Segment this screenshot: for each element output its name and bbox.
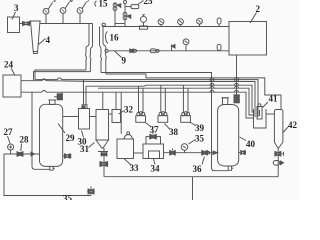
svg-text:29: 29 xyxy=(66,133,76,143)
column 31 (cyclone) xyxy=(96,110,109,149)
capsule fitting row2 xyxy=(150,49,159,53)
label 35 xyxy=(195,134,205,144)
svg-text:16: 16 xyxy=(110,33,120,43)
junction curl at start of row1 pipe xyxy=(102,23,105,26)
svg-text:24: 24 xyxy=(4,60,14,70)
wire left drop pipe x4 and bottom run y195.5 xyxy=(4,154,91,196)
wire vertical x115 to row1 pipe xyxy=(114,12,116,27)
leader for label 35 xyxy=(189,140,196,145)
capsule fitting on row2 xyxy=(217,44,221,51)
label 31 xyxy=(80,144,90,154)
leader for label 24 xyxy=(11,68,15,76)
wire vertical x125 xyxy=(124,4,126,27)
box 3 (feed tank) xyxy=(8,17,20,33)
wire top pipe y23.5 xyxy=(40,23,93,25)
label 16 xyxy=(110,33,120,43)
valve between 34 and 35 xyxy=(170,148,176,155)
leader brace for 16 xyxy=(105,32,108,44)
vessel40 bottom drain xyxy=(228,166,233,170)
leader for label 36 xyxy=(202,157,205,165)
label 33 xyxy=(130,163,140,173)
vessel29 bottom drain xyxy=(50,166,55,170)
wire column31 to box32 xyxy=(109,113,113,115)
T-valve on riser xyxy=(98,149,108,157)
leader for label 4 xyxy=(39,39,46,45)
wire loop under vessel40 xyxy=(212,151,229,171)
wire x125 to capsule 25 xyxy=(125,6,131,8)
top manifold line TL to vessel40 side entry xyxy=(101,73,212,151)
svg-text:6: 6 xyxy=(70,0,74,4)
wire stub x91 with valve xyxy=(88,187,94,196)
leader for label 38 xyxy=(165,124,170,130)
box 24 (control cabinet) xyxy=(3,75,21,97)
wire bath41 to vessel42 xyxy=(266,113,274,115)
svg-text:7: 7 xyxy=(87,0,91,4)
wires left pair to box24 corner xyxy=(34,70,91,81)
label 28 xyxy=(20,135,30,145)
actuator 39 xyxy=(181,85,191,122)
capsule fitting on row1 xyxy=(217,18,221,27)
manifold line L5 y92.2 xyxy=(21,90,254,118)
leader for label 33 xyxy=(124,159,131,166)
wires above box30 xyxy=(84,80,87,105)
wire row2 pipe y50.8 xyxy=(108,50,229,52)
label 40 xyxy=(246,139,256,149)
gauge 27 xyxy=(8,144,14,154)
wire tank34 to vessel40 xyxy=(164,152,214,154)
manifold line L3 y86.2 xyxy=(86,85,254,112)
valve under 42 (top) xyxy=(275,152,284,157)
wire tank33 to tank34 xyxy=(134,152,144,154)
label 35b (bottom edge, cut off) xyxy=(63,194,73,204)
bridge over tank 34 xyxy=(146,137,161,144)
small circle on top of x125 line xyxy=(123,0,126,3)
leader for label 25 xyxy=(138,1,144,5)
tank 34 (bath with inner vessel) xyxy=(143,144,164,159)
bridge x115-x125 at y23.5 xyxy=(115,23,125,25)
check valve on row2 xyxy=(172,45,176,51)
label 42 xyxy=(288,120,298,130)
actuator 37 xyxy=(136,86,146,122)
svg-text:39: 39 xyxy=(195,123,205,133)
label 4 xyxy=(46,35,51,45)
wire vertical from box2 bottom to vessel 40 nozzle xyxy=(236,55,238,95)
arrow into vessel 40 xyxy=(213,151,218,155)
leader for label 41 xyxy=(263,102,269,108)
label 3 xyxy=(14,3,19,13)
label 25 xyxy=(144,0,154,6)
label 37 xyxy=(150,125,160,135)
gauge G2 xyxy=(60,2,69,24)
wire pipe 27 to vessel29 xyxy=(4,153,40,155)
wire drop x192.5 xyxy=(192,177,194,200)
tiny top-edge labels xyxy=(53,0,91,4)
capsule 25 (sample box) xyxy=(131,5,139,9)
box 32 (filter) xyxy=(112,110,121,123)
vessel29 right side valve xyxy=(63,154,71,158)
wire bottom long pipe y176.7 xyxy=(104,176,278,178)
svg-text:37: 37 xyxy=(150,125,160,135)
squiggle breaks right pair xyxy=(100,53,106,74)
gauge row2 xyxy=(183,39,189,51)
svg-text:35: 35 xyxy=(63,194,73,201)
wire above column31 xyxy=(102,92,104,109)
wire recycle loop under vessel29 xyxy=(32,92,50,169)
label 38 xyxy=(169,127,179,137)
svg-text:15: 15 xyxy=(99,0,109,9)
valve 28 xyxy=(17,152,23,157)
label 30 xyxy=(78,137,88,147)
svg-text:4: 4 xyxy=(46,35,51,45)
manifold line LB from pair2 to vessel42 xyxy=(106,74,281,110)
label 32 xyxy=(124,105,134,115)
leader for label 30 xyxy=(82,131,84,138)
pump 35 (circle) xyxy=(181,144,188,153)
vessel 29 (tall column) xyxy=(40,104,63,166)
actuator 38 xyxy=(158,85,168,122)
leader for label 3 xyxy=(12,12,16,20)
svg-text:42: 42 xyxy=(288,120,298,130)
row2 start circle on pair2 xyxy=(105,49,108,52)
leader for label 27 xyxy=(8,136,11,144)
svg-text:25: 25 xyxy=(144,0,154,6)
gauge G1 xyxy=(43,3,52,24)
leader for label 39 xyxy=(191,123,196,126)
svg-text:41: 41 xyxy=(269,94,279,104)
leader brace for 15 xyxy=(95,1,97,7)
vessel29 top dark nozzle xyxy=(54,92,62,100)
label 24 xyxy=(4,60,14,70)
svg-text:28: 28 xyxy=(20,135,30,145)
gauge row1 B xyxy=(178,19,184,27)
leader for label 42 xyxy=(283,127,289,133)
wire vessel29 to box30 xyxy=(63,116,79,118)
leader for label 2 xyxy=(250,13,257,24)
bowtie valve on riser xyxy=(100,162,108,167)
box 30 (washer) xyxy=(79,105,90,129)
vessel40 top dark nozzle xyxy=(234,95,239,103)
bath 41 (open box) xyxy=(254,109,267,128)
column 4 (tapered) xyxy=(30,21,41,54)
label 2 xyxy=(256,4,261,14)
leader for label 32 xyxy=(119,111,125,115)
vessel40 right fitting xyxy=(239,151,246,155)
label 27 xyxy=(4,127,14,137)
gauge row1 A xyxy=(158,19,164,27)
label 29 xyxy=(66,133,76,143)
mini valve above box30 xyxy=(82,106,85,108)
leader for label 28 xyxy=(20,144,23,152)
valve under 42 (capsule) xyxy=(273,161,283,166)
hop arcs at x236.5 xyxy=(235,78,239,93)
wire box30 to column31 xyxy=(90,116,97,118)
valve between 3 and 4 xyxy=(23,22,30,26)
label 41 xyxy=(269,94,279,104)
leader for label 34 xyxy=(154,159,156,165)
svg-text:40: 40 xyxy=(246,139,256,149)
valve V15a on vertical x115 (two circles + bowtie) xyxy=(113,2,121,12)
wire vessel42 cone to valves xyxy=(277,148,279,177)
leader for label 31 xyxy=(89,143,95,148)
vertical pipe pair 2 (from row1 pipe down) xyxy=(100,27,106,55)
vessel 40 (tall column) xyxy=(218,105,239,167)
manifold line L2 y81.5 xyxy=(95,82,255,118)
leader for label 40 xyxy=(240,137,247,141)
tank 33 xyxy=(117,132,134,159)
label 39 xyxy=(195,123,205,133)
svg-text:3: 3 xyxy=(14,3,19,13)
leader for label 37 xyxy=(146,123,151,127)
leader for label 9 xyxy=(115,51,122,58)
label 9 xyxy=(122,56,127,66)
wire row1 pipe y26.5 xyxy=(102,26,229,28)
svg-text:31: 31 xyxy=(80,144,90,154)
wire box3 to valve xyxy=(20,23,23,25)
box 2 (furnace) xyxy=(229,22,267,56)
label 36 xyxy=(193,164,203,174)
gauge row1 C xyxy=(197,18,203,26)
vertical pipe pair from top pipe (left pair) xyxy=(86,24,93,56)
valve 36 xyxy=(202,150,210,155)
vessel 42 (hopper) xyxy=(274,110,283,148)
pump P1 (circle on box) xyxy=(140,15,148,29)
arrow into vessel29 xyxy=(31,152,35,156)
svg-text:5: 5 xyxy=(53,0,57,4)
box24 top line xyxy=(21,79,95,82)
svg-text:27: 27 xyxy=(4,127,14,137)
cylinder inside bath 41 xyxy=(257,104,262,119)
manifold line L1 y79.6 xyxy=(35,78,258,117)
squiggle breaks left pair xyxy=(85,54,90,72)
valve V25 on x125 (two circles + arrow) xyxy=(123,12,131,19)
manifold line L4 y88.2 xyxy=(98,88,254,115)
hop arcs at x212 xyxy=(210,78,214,93)
gauge G3 xyxy=(77,2,86,24)
label 34 xyxy=(151,164,161,174)
svg-text:9: 9 xyxy=(122,56,127,66)
svg-text:32: 32 xyxy=(124,105,134,115)
wire above box32 xyxy=(115,92,117,109)
svg-text:38: 38 xyxy=(169,127,179,137)
svg-text:34: 34 xyxy=(151,164,161,174)
wire x121 down to tank33 lid xyxy=(120,92,122,134)
valve 37v on bridge xyxy=(150,132,157,139)
wire riser from column31 cone xyxy=(103,148,105,177)
svg-text:36: 36 xyxy=(193,164,203,174)
label 15 xyxy=(99,0,109,9)
leader for label 29 xyxy=(58,124,65,134)
vessel29 top cap nozzle xyxy=(48,100,56,105)
valve on row2 left xyxy=(130,49,137,53)
vessel40 top cap nozzle xyxy=(222,98,229,105)
svg-text:35: 35 xyxy=(195,134,205,144)
